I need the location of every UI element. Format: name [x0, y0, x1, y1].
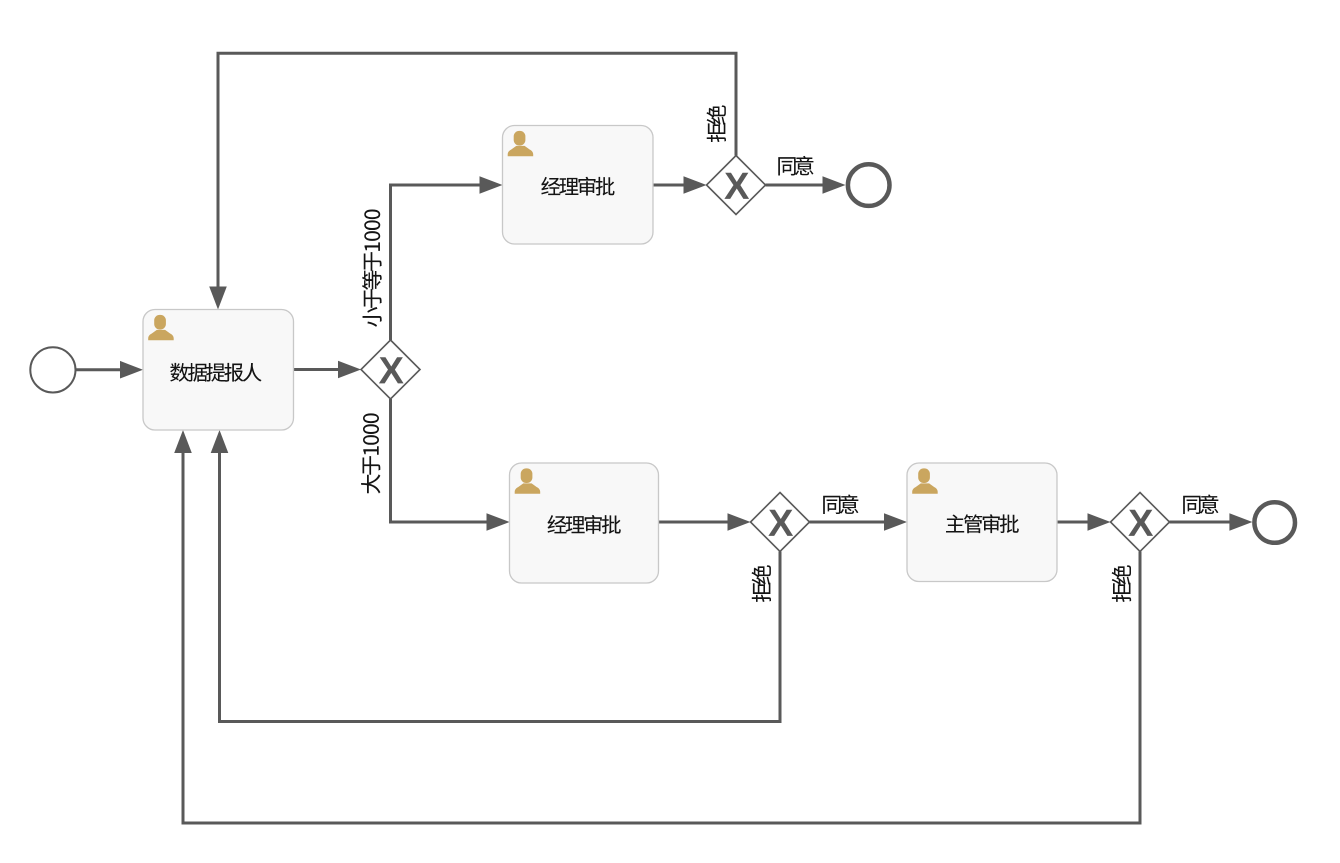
wire task1 to gateway1: [294, 368, 340, 371]
user icon task 2: [508, 131, 534, 156]
task box 2: manager approval (upper): [503, 126, 654, 245]
wire gateway2 reject loop back to task1 top: [218, 53, 736, 288]
label 拒绝 (gateway3): [752, 565, 771, 602]
task1 label 数据提报人: [170, 363, 261, 382]
gateway 2 (exclusive): [707, 156, 766, 215]
wire gateway3 to task4 (agree): [810, 521, 886, 524]
start event circle: [30, 347, 75, 392]
gateway 4 (exclusive): [1111, 493, 1170, 552]
wire task3 to gateway3: [659, 521, 730, 524]
gateway 3 (exclusive): [751, 493, 810, 552]
label 小于等于1000: [362, 209, 382, 326]
label 拒绝 (gateway4): [1112, 565, 1131, 602]
task box 4: supervisor approval: [907, 463, 1057, 582]
task3 label 经理审批: [548, 515, 621, 534]
label 同意 (gateway2): [778, 156, 813, 176]
wire gateway1 up to task2 (small-or-equal branch): [391, 185, 482, 340]
end event circle 2: [1254, 502, 1295, 543]
user icon task 4: [912, 468, 938, 493]
wire task2 to gateway2: [653, 184, 685, 187]
task box 1: data reporter: [143, 310, 294, 431]
wire gateway2 to end1 (agree): [766, 184, 825, 187]
wire gateway1 down to task3 (greater branch): [391, 399, 489, 522]
user icon task 1: [148, 315, 174, 340]
wire gateway3 reject loop back to task1 bottom: [220, 452, 781, 722]
wire start to task1: [75, 368, 121, 371]
end event circle 1: [848, 164, 890, 206]
label 同意 (gateway3): [823, 494, 858, 514]
task2 label 经理审批: [541, 177, 614, 196]
task box 3: manager approval (lower): [510, 463, 659, 583]
wire gateway4 reject loop back to task1 bottom: [183, 452, 1140, 824]
user icon task 3: [515, 468, 541, 493]
label 拒绝 (gateway2): [707, 105, 726, 142]
task4 label 主管审批: [946, 514, 1019, 533]
gateway 1 (exclusive): [361, 340, 420, 399]
wire gateway4 to end2 (agree): [1170, 521, 1232, 524]
label 同意 (gateway4): [1183, 494, 1218, 514]
label 大于1000: [361, 413, 380, 493]
wire task4 to gateway4: [1057, 521, 1089, 524]
